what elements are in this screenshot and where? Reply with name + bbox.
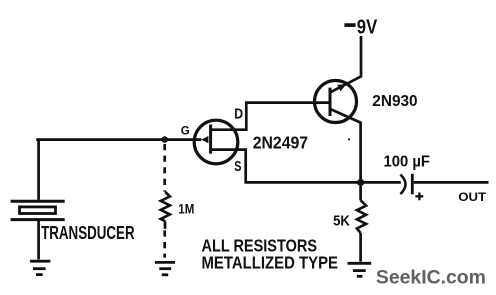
svg-text:G: G — [181, 123, 190, 137]
label -9V — [344, 16, 377, 38]
svg-text:SeekIC.com: SeekIC.com — [376, 267, 486, 288]
wire 5K to ground — [359, 233, 362, 262]
wire below R1 — [164, 221, 167, 228]
plus polarity mark — [415, 193, 423, 201]
wire input top horizontal — [36, 138, 201, 141]
wire collector down to node — [330, 109, 361, 182]
JFET Q1 2N2497 — [194, 120, 238, 164]
emitter arrow — [337, 84, 346, 91]
resistor R2 5K zigzag — [357, 200, 366, 233]
wire source to output node — [212, 150, 361, 183]
wire node to capacitor — [361, 181, 401, 184]
svg-text:1M: 1M — [178, 201, 194, 216]
svg-text:OUT: OUT — [458, 191, 486, 204]
wire emitter to -9V rail — [330, 36, 361, 92]
transducer X1 — [11, 201, 65, 219]
svg-text:TRANSDUCER: TRANSDUCER — [41, 223, 135, 243]
wire dashed 1M to ground — [163, 230, 166, 257]
capacitor C1 straight plate — [411, 174, 414, 195]
transistor Q2 2N930 — [315, 81, 357, 123]
svg-text:2N930: 2N930 — [372, 93, 417, 110]
node G junction dot — [161, 136, 168, 143]
svg-text:5K: 5K — [333, 213, 350, 229]
wire transducer to ground — [37, 221, 40, 259]
speck artifact — [348, 138, 350, 140]
resistor R1 1M zigzag — [161, 192, 170, 221]
wire node down to 5K — [359, 186, 362, 200]
ground 1M — [155, 262, 175, 274]
node OUT junction dot — [357, 179, 364, 186]
wire capacitor to OUT — [414, 181, 489, 184]
ground 5K — [348, 263, 372, 276]
wire left vertical to transducer — [37, 138, 40, 199]
svg-text:S: S — [234, 159, 241, 175]
svg-text:2N2497: 2N2497 — [253, 132, 308, 152]
svg-text:100 µF: 100 µF — [384, 153, 431, 170]
svg-text:D: D — [234, 107, 243, 123]
wire dashed node to 1M — [163, 144, 166, 192]
svg-text:9V: 9V — [357, 16, 378, 38]
ground transducer — [30, 261, 51, 274]
svg-text:METALLIZED TYPE: METALLIZED TYPE — [202, 253, 339, 273]
capacitor C1 curved plate — [400, 175, 405, 195]
wire drain to base of Q2 — [212, 103, 330, 130]
